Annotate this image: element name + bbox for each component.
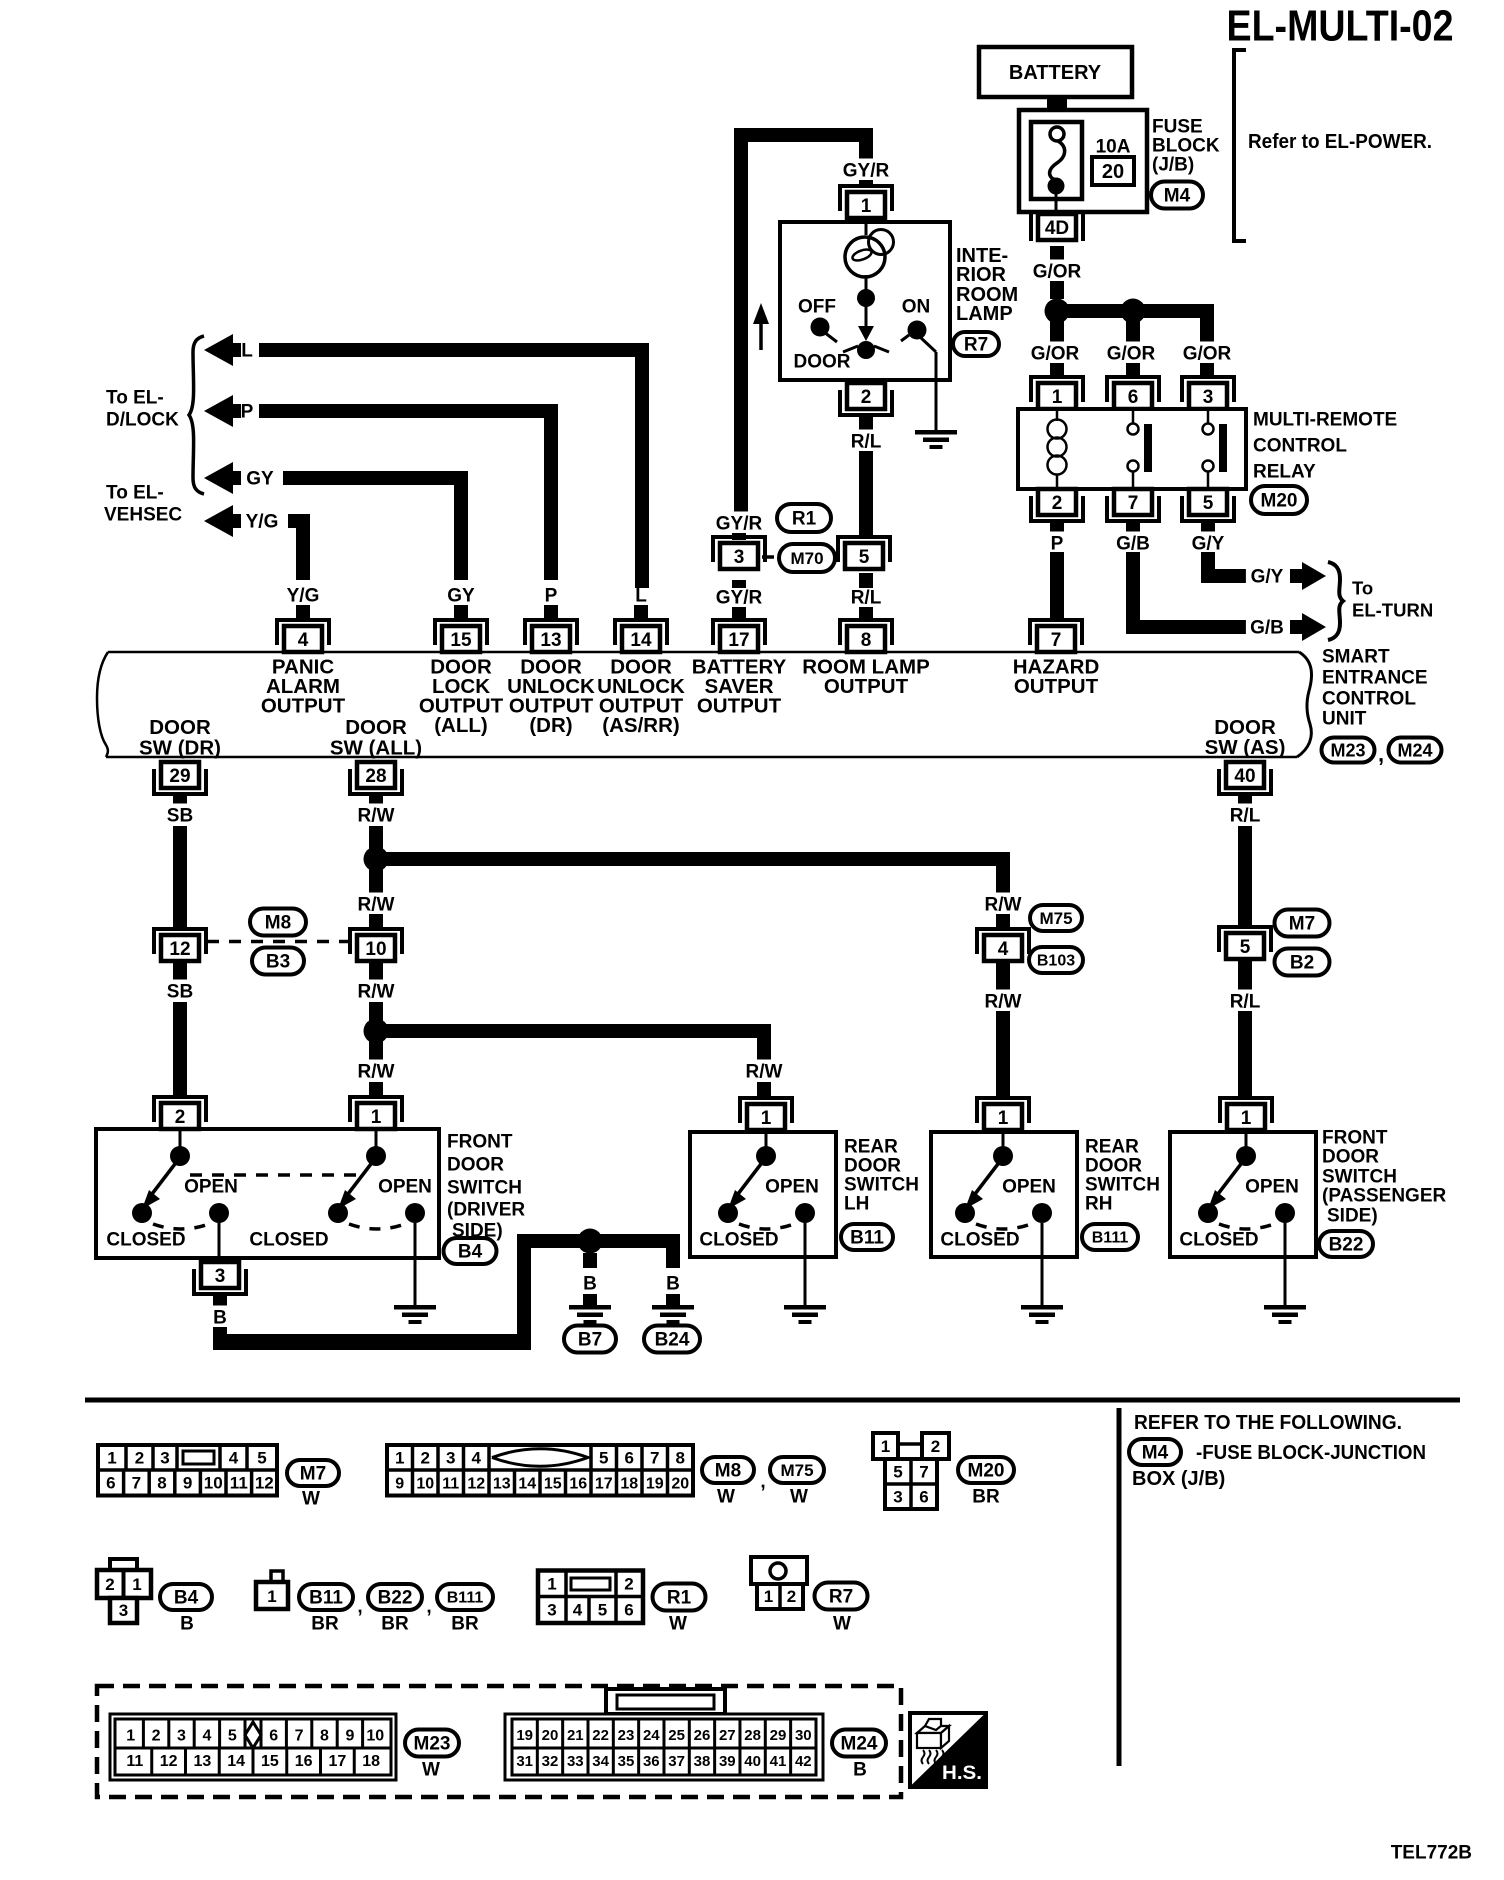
- svg-text:BLOCK: BLOCK: [1152, 136, 1220, 157]
- svg-text:1: 1: [395, 1449, 404, 1468]
- svg-text:4: 4: [573, 1601, 583, 1620]
- svg-text:21: 21: [567, 1727, 584, 1744]
- svg-text:1: 1: [267, 1587, 276, 1606]
- svg-text:M7: M7: [300, 1464, 326, 1485]
- svg-text:,: ,: [357, 1597, 362, 1618]
- svg-text:2: 2: [421, 1449, 430, 1468]
- svg-text:BR: BR: [451, 1614, 479, 1635]
- svg-text:17: 17: [595, 1475, 613, 1492]
- svg-text:9: 9: [395, 1475, 404, 1492]
- svg-text:GY: GY: [246, 469, 274, 490]
- svg-text:1: 1: [881, 1437, 890, 1456]
- svg-text:(DRIVER: (DRIVER: [447, 1200, 525, 1221]
- svg-text:28: 28: [744, 1727, 761, 1744]
- svg-text:14: 14: [630, 630, 652, 651]
- svg-text:33: 33: [567, 1753, 584, 1770]
- svg-text:B111: B111: [447, 1590, 484, 1607]
- svg-text:G/B: G/B: [1116, 534, 1150, 555]
- svg-text:SMART: SMART: [1322, 647, 1390, 668]
- svg-text:4: 4: [472, 1449, 482, 1468]
- svg-text:Y/G: Y/G: [246, 512, 279, 533]
- svg-text:(AS/RR): (AS/RR): [602, 714, 679, 737]
- svg-text:DOOR: DOOR: [794, 352, 851, 373]
- svg-text:5: 5: [257, 1449, 266, 1468]
- svg-text:G/OR: G/OR: [1031, 344, 1080, 365]
- svg-text:10A: 10A: [1096, 137, 1131, 158]
- svg-text:6: 6: [919, 1488, 928, 1507]
- svg-text:5: 5: [1240, 937, 1251, 958]
- svg-text:36: 36: [643, 1753, 660, 1770]
- svg-text:OUTPUT: OUTPUT: [1014, 675, 1099, 698]
- svg-text:CONTROL: CONTROL: [1322, 689, 1416, 710]
- svg-text:BR: BR: [311, 1614, 339, 1635]
- svg-text:7: 7: [650, 1449, 659, 1468]
- svg-text:R/L: R/L: [851, 432, 882, 453]
- svg-text:W: W: [833, 1614, 851, 1635]
- svg-text:RH: RH: [1085, 1194, 1112, 1215]
- svg-text:9: 9: [183, 1474, 192, 1493]
- svg-text:SW (DR): SW (DR): [139, 737, 221, 760]
- svg-text:M4: M4: [1142, 1443, 1169, 1464]
- svg-text:REFER TO THE FOLLOWING.: REFER TO THE FOLLOWING.: [1134, 1412, 1402, 1434]
- svg-text:5: 5: [859, 547, 870, 568]
- svg-text:B24: B24: [655, 1330, 690, 1351]
- svg-text:SWITCH: SWITCH: [1322, 1167, 1397, 1188]
- svg-text:SWITCH: SWITCH: [844, 1175, 919, 1196]
- svg-text:5: 5: [1203, 493, 1214, 514]
- svg-text:24: 24: [643, 1727, 660, 1744]
- svg-text:DOOR: DOOR: [1322, 1147, 1379, 1168]
- svg-text:To EL-: To EL-: [106, 388, 164, 409]
- svg-text:26: 26: [694, 1727, 711, 1744]
- svg-text:To EL-: To EL-: [106, 483, 164, 504]
- svg-text:B7: B7: [578, 1330, 602, 1351]
- svg-text:12: 12: [169, 939, 190, 960]
- svg-text:REAR: REAR: [844, 1137, 898, 1158]
- svg-text:14: 14: [518, 1475, 536, 1492]
- svg-text:GY/R: GY/R: [716, 514, 763, 535]
- svg-text:2: 2: [135, 1449, 144, 1468]
- svg-text:DOOR: DOOR: [844, 1156, 901, 1177]
- svg-text:M75: M75: [1039, 909, 1072, 928]
- svg-text:11: 11: [442, 1475, 459, 1492]
- svg-text:40: 40: [744, 1753, 761, 1770]
- svg-text:(ALL): (ALL): [434, 714, 488, 737]
- svg-text:13: 13: [540, 630, 561, 651]
- svg-text:OPEN: OPEN: [765, 1177, 819, 1198]
- svg-text:1: 1: [547, 1575, 556, 1594]
- svg-text:OUTPUT: OUTPUT: [697, 695, 782, 718]
- svg-text:2: 2: [152, 1728, 161, 1745]
- svg-text:1: 1: [1052, 387, 1063, 408]
- svg-text:W: W: [302, 1489, 320, 1510]
- svg-text:M75: M75: [780, 1461, 813, 1480]
- svg-text:3: 3: [177, 1728, 186, 1745]
- svg-text:,: ,: [426, 1597, 431, 1618]
- svg-text:BR: BR: [381, 1614, 409, 1635]
- svg-text:12: 12: [467, 1475, 485, 1492]
- svg-text:,: ,: [1378, 742, 1384, 767]
- svg-text:1: 1: [126, 1728, 135, 1745]
- svg-text:M8: M8: [265, 913, 291, 934]
- svg-text:R/W: R/W: [358, 982, 395, 1003]
- svg-text:R/W: R/W: [985, 992, 1022, 1013]
- svg-text:7: 7: [1051, 630, 1062, 651]
- svg-text:UNIT: UNIT: [1322, 709, 1367, 730]
- svg-text:8: 8: [676, 1449, 685, 1468]
- svg-text:1: 1: [764, 1587, 773, 1606]
- svg-text:20: 20: [542, 1727, 559, 1744]
- svg-text:34: 34: [592, 1753, 609, 1770]
- svg-text:To: To: [1352, 578, 1373, 599]
- svg-text:31: 31: [516, 1753, 533, 1770]
- svg-text:M70: M70: [790, 549, 823, 568]
- svg-text:P: P: [241, 402, 254, 423]
- svg-text:R1: R1: [667, 1588, 692, 1609]
- svg-text:5: 5: [599, 1449, 608, 1468]
- svg-text:FRONT: FRONT: [1322, 1128, 1388, 1149]
- svg-text:OPEN: OPEN: [1002, 1177, 1056, 1198]
- svg-text:M23: M23: [1330, 740, 1365, 760]
- svg-text:15: 15: [450, 630, 472, 651]
- svg-text:29: 29: [169, 766, 190, 787]
- svg-text:2: 2: [787, 1587, 796, 1606]
- svg-text:22: 22: [592, 1727, 609, 1744]
- svg-text:M7: M7: [1289, 914, 1315, 935]
- svg-text:18: 18: [362, 1753, 380, 1770]
- svg-text:OUTPUT: OUTPUT: [261, 695, 346, 718]
- svg-text:M23: M23: [414, 1734, 451, 1755]
- svg-text:38: 38: [694, 1753, 711, 1770]
- svg-text:M8: M8: [715, 1461, 741, 1482]
- svg-text:OPEN: OPEN: [1245, 1177, 1299, 1198]
- svg-text:SB: SB: [167, 982, 193, 1003]
- svg-text:B: B: [853, 1760, 867, 1781]
- svg-text:FUSE: FUSE: [1152, 117, 1203, 138]
- svg-text:17: 17: [728, 630, 749, 651]
- svg-text:LAMP: LAMP: [956, 303, 1013, 325]
- svg-text:Refer to EL-POWER.: Refer to EL-POWER.: [1248, 131, 1432, 153]
- svg-text:B11: B11: [309, 1588, 343, 1609]
- svg-text:Y/G: Y/G: [287, 586, 320, 607]
- svg-text:4: 4: [202, 1728, 211, 1745]
- svg-text:29: 29: [770, 1727, 787, 1744]
- svg-text:R/W: R/W: [358, 806, 395, 827]
- svg-text:2: 2: [931, 1437, 940, 1456]
- svg-text:DOOR: DOOR: [447, 1155, 504, 1176]
- svg-text:1: 1: [761, 1108, 772, 1129]
- svg-text:(J/B): (J/B): [1152, 155, 1194, 176]
- svg-text:W: W: [717, 1487, 735, 1508]
- svg-text:OUTPUT: OUTPUT: [824, 675, 909, 698]
- svg-text:2: 2: [105, 1575, 114, 1594]
- svg-text:G/Y: G/Y: [1251, 567, 1284, 588]
- svg-text:B2: B2: [1290, 953, 1314, 974]
- svg-text:G/B: G/B: [1250, 618, 1284, 639]
- svg-text:4: 4: [298, 630, 309, 651]
- svg-text:28: 28: [365, 766, 386, 787]
- svg-text:B: B: [213, 1308, 227, 1329]
- svg-text:R/L: R/L: [1230, 992, 1261, 1013]
- svg-text:11: 11: [126, 1753, 143, 1770]
- svg-text:BOX (J/B): BOX (J/B): [1132, 1468, 1225, 1490]
- svg-text:B22: B22: [1329, 1235, 1364, 1256]
- svg-text:14: 14: [227, 1753, 245, 1770]
- svg-text:3: 3: [734, 547, 745, 568]
- svg-text:TEL772B: TEL772B: [1391, 1843, 1472, 1864]
- svg-text:40: 40: [1234, 766, 1255, 787]
- svg-text:GY/R: GY/R: [843, 161, 890, 182]
- svg-text:10: 10: [204, 1474, 223, 1493]
- svg-text:17: 17: [328, 1753, 346, 1770]
- svg-text:M4: M4: [1164, 186, 1191, 207]
- svg-text:15: 15: [261, 1753, 279, 1770]
- svg-text:SW (ALL): SW (ALL): [330, 737, 422, 760]
- svg-text:19: 19: [516, 1727, 533, 1744]
- svg-text:VEHSEC: VEHSEC: [104, 505, 182, 526]
- svg-text:5: 5: [228, 1728, 237, 1745]
- svg-text:20: 20: [671, 1475, 689, 1492]
- svg-text:R/L: R/L: [1230, 806, 1261, 827]
- svg-text:(PASSENGER: (PASSENGER: [1322, 1186, 1447, 1207]
- svg-text:41: 41: [770, 1753, 787, 1770]
- svg-text:M20: M20: [968, 1461, 1005, 1482]
- svg-text:13: 13: [493, 1475, 511, 1492]
- svg-text:B3: B3: [266, 952, 290, 973]
- svg-text:8: 8: [157, 1474, 166, 1493]
- svg-text:G/OR: G/OR: [1033, 262, 1082, 283]
- svg-text:39: 39: [719, 1753, 736, 1770]
- svg-text:CLOSED: CLOSED: [940, 1230, 1019, 1251]
- svg-text:R/W: R/W: [985, 895, 1022, 916]
- svg-text:20: 20: [1102, 161, 1124, 183]
- svg-text:23: 23: [618, 1727, 635, 1744]
- svg-text:R/W: R/W: [746, 1062, 783, 1083]
- svg-text:4: 4: [998, 939, 1009, 960]
- svg-text:6: 6: [106, 1474, 115, 1493]
- svg-text:16: 16: [295, 1753, 313, 1770]
- svg-text:6: 6: [625, 1449, 634, 1468]
- svg-text:EL-TURN: EL-TURN: [1352, 600, 1433, 621]
- svg-text:CLOSED: CLOSED: [1179, 1230, 1258, 1251]
- svg-text:4: 4: [229, 1449, 239, 1468]
- svg-text:W: W: [422, 1760, 440, 1781]
- svg-text:12: 12: [255, 1474, 274, 1493]
- svg-text:3: 3: [119, 1601, 128, 1620]
- svg-text:3: 3: [1203, 387, 1214, 408]
- svg-text:W: W: [790, 1487, 808, 1508]
- svg-text:B103: B103: [1037, 953, 1075, 970]
- svg-text:CLOSED: CLOSED: [699, 1230, 778, 1251]
- svg-text:1: 1: [861, 196, 872, 217]
- svg-text:LH: LH: [844, 1194, 869, 1215]
- svg-text:B111: B111: [1092, 1230, 1129, 1247]
- svg-text:3: 3: [215, 1266, 226, 1287]
- svg-text:12: 12: [160, 1753, 178, 1770]
- svg-text:3: 3: [446, 1449, 455, 1468]
- svg-text:B4: B4: [458, 1242, 483, 1263]
- svg-text:DOOR: DOOR: [1085, 1156, 1142, 1177]
- svg-text:B: B: [666, 1274, 680, 1295]
- svg-text:(DR): (DR): [529, 714, 572, 737]
- svg-text:REAR: REAR: [1085, 1137, 1139, 1158]
- svg-text:R7: R7: [829, 1587, 853, 1608]
- svg-text:SIDE): SIDE): [1327, 1206, 1378, 1227]
- svg-text:P: P: [1051, 534, 1064, 555]
- svg-text:RIOR: RIOR: [956, 264, 1007, 286]
- svg-text:B11: B11: [850, 1228, 884, 1249]
- svg-text:SB: SB: [167, 806, 193, 827]
- svg-text:R/W: R/W: [358, 895, 395, 916]
- svg-text:2: 2: [175, 1107, 186, 1128]
- svg-text:35: 35: [618, 1753, 635, 1770]
- svg-text:3: 3: [547, 1601, 556, 1620]
- svg-text:CLOSED: CLOSED: [106, 1230, 185, 1251]
- svg-text:SW (AS): SW (AS): [1205, 736, 1286, 759]
- svg-text:3: 3: [893, 1488, 902, 1507]
- svg-text:19: 19: [646, 1475, 664, 1492]
- svg-text:SWITCH: SWITCH: [1085, 1175, 1160, 1196]
- svg-text:B: B: [583, 1274, 597, 1295]
- svg-text:9: 9: [345, 1728, 354, 1745]
- svg-text:L: L: [635, 586, 647, 607]
- svg-text:6: 6: [624, 1601, 633, 1620]
- svg-text:10: 10: [365, 939, 386, 960]
- svg-text:B22: B22: [378, 1588, 413, 1609]
- svg-text:2: 2: [1052, 493, 1063, 514]
- svg-text:ENTRANCE: ENTRANCE: [1322, 668, 1428, 689]
- svg-text:5: 5: [893, 1463, 902, 1482]
- svg-text:R1: R1: [792, 509, 817, 530]
- svg-text:W: W: [669, 1614, 687, 1635]
- svg-text:M24: M24: [841, 1734, 878, 1755]
- svg-text:SWITCH: SWITCH: [447, 1178, 522, 1199]
- svg-text:32: 32: [542, 1753, 559, 1770]
- svg-text:BR: BR: [972, 1487, 1000, 1508]
- svg-text:OFF: OFF: [798, 297, 836, 318]
- svg-text:3: 3: [160, 1449, 169, 1468]
- svg-text:6: 6: [269, 1728, 278, 1745]
- svg-text:CLOSED: CLOSED: [249, 1230, 328, 1251]
- svg-text:1: 1: [1241, 1108, 1252, 1129]
- svg-text:B: B: [180, 1614, 194, 1635]
- svg-text:MULTI-REMOTE: MULTI-REMOTE: [1253, 410, 1397, 431]
- svg-text:16: 16: [569, 1475, 587, 1492]
- svg-text:D/LOCK: D/LOCK: [106, 410, 179, 431]
- svg-text:FRONT: FRONT: [447, 1132, 513, 1153]
- svg-text:G/OR: G/OR: [1183, 344, 1232, 365]
- svg-text:1: 1: [107, 1449, 116, 1468]
- svg-text:RELAY: RELAY: [1253, 462, 1316, 483]
- svg-text:OPEN: OPEN: [378, 1177, 432, 1198]
- svg-text:25: 25: [668, 1727, 685, 1744]
- svg-text:M20: M20: [1261, 491, 1298, 512]
- svg-text:15: 15: [544, 1475, 562, 1492]
- svg-text:B4: B4: [174, 1588, 199, 1609]
- svg-text:GY/R: GY/R: [716, 588, 763, 609]
- svg-text:CONTROL: CONTROL: [1253, 436, 1347, 457]
- svg-text:1: 1: [371, 1107, 382, 1128]
- svg-text:BATTERY: BATTERY: [1009, 62, 1102, 84]
- svg-text:OPEN: OPEN: [184, 1177, 238, 1198]
- svg-text:7: 7: [132, 1474, 141, 1493]
- svg-text:ON: ON: [902, 297, 931, 318]
- svg-text:11: 11: [230, 1474, 248, 1493]
- svg-text:4D: 4D: [1045, 218, 1069, 239]
- svg-text:R/L: R/L: [851, 588, 882, 609]
- svg-text:L: L: [241, 341, 253, 362]
- svg-text:1: 1: [132, 1575, 141, 1594]
- svg-text:R7: R7: [964, 335, 988, 356]
- svg-text:M24: M24: [1397, 740, 1432, 760]
- svg-text:1: 1: [998, 1108, 1009, 1129]
- svg-text:7: 7: [295, 1728, 304, 1745]
- svg-text:42: 42: [795, 1753, 812, 1770]
- svg-text:37: 37: [668, 1753, 685, 1770]
- svg-text:EL-MULTI-02: EL-MULTI-02: [1227, 1, 1454, 50]
- svg-text:G/Y: G/Y: [1192, 534, 1225, 555]
- svg-text:R/W: R/W: [358, 1062, 395, 1083]
- svg-text:8: 8: [861, 630, 872, 651]
- svg-text:7: 7: [1128, 493, 1139, 514]
- svg-text:27: 27: [719, 1727, 736, 1744]
- svg-text:5: 5: [598, 1601, 607, 1620]
- svg-text:6: 6: [1128, 387, 1139, 408]
- svg-text:10: 10: [416, 1475, 434, 1492]
- svg-text:7: 7: [919, 1463, 928, 1482]
- svg-text:,: ,: [760, 1472, 765, 1493]
- svg-text:18: 18: [620, 1475, 638, 1492]
- svg-text:10: 10: [366, 1728, 384, 1745]
- svg-text:G/OR: G/OR: [1107, 344, 1156, 365]
- svg-text:P: P: [545, 586, 558, 607]
- svg-text:8: 8: [320, 1728, 329, 1745]
- svg-text:2: 2: [624, 1575, 633, 1594]
- svg-text:H.S.: H.S.: [942, 1762, 982, 1784]
- svg-text:30: 30: [795, 1727, 812, 1744]
- svg-text:-FUSE BLOCK-JUNCTION: -FUSE BLOCK-JUNCTION: [1196, 1442, 1426, 1464]
- svg-text:GY: GY: [447, 586, 475, 607]
- svg-text:13: 13: [193, 1753, 211, 1770]
- svg-text:2: 2: [861, 387, 872, 408]
